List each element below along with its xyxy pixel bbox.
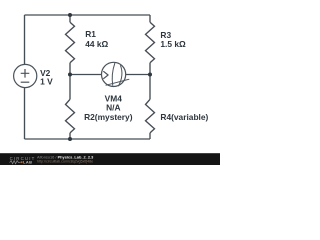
- wire bottom horizontal: [25, 138, 151, 140]
- svg-text:LAB: LAB: [23, 160, 32, 165]
- wire junction to R4: [149, 75, 151, 100]
- wire left rail lower: [24, 88, 26, 139]
- wire R1 to junction: [69, 63, 71, 75]
- resistor R4: [146, 99, 155, 133]
- resistor R1: [66, 22, 75, 63]
- footer bar: [0, 153, 220, 165]
- node junction R3/R4/voltmeter: [148, 73, 152, 77]
- resistor R3: [146, 22, 155, 63]
- svg-text:1 V: 1 V: [40, 77, 53, 87]
- node junction R1/R2/voltmeter: [68, 73, 72, 77]
- wire R4 bottom stub: [149, 133, 151, 139]
- svg-text:R4(variable): R4(variable): [160, 112, 208, 122]
- wire top horizontal: [25, 14, 151, 16]
- svg-text:http://circuitlab.com/c8q2vg5x: http://circuitlab.com/c8q2vg5xtfj48e: [37, 159, 93, 163]
- svg-text:1.5 kΩ: 1.5 kΩ: [160, 39, 186, 49]
- wire voltmeter left lead: [70, 74, 102, 76]
- node junction bottom of R2: [68, 137, 72, 141]
- svg-text:R1: R1: [85, 29, 96, 39]
- voltage source V2: [14, 64, 37, 87]
- voltmeter VM4: [102, 62, 130, 86]
- node junction top of R1: [68, 13, 72, 17]
- wire left rail upper: [24, 15, 26, 64]
- logo waveform: [10, 161, 21, 164]
- wire voltmeter right lead: [126, 74, 150, 76]
- wire junction to R2: [69, 75, 71, 100]
- wire R3 to junction: [149, 63, 151, 75]
- wire right rail top stub: [149, 15, 151, 22]
- svg-text:N/A: N/A: [106, 103, 120, 113]
- wire R1 top stub: [69, 15, 71, 22]
- svg-text:R2(mystery): R2(mystery): [84, 112, 133, 122]
- svg-text:44 kΩ: 44 kΩ: [85, 39, 108, 49]
- resistor R2: [66, 99, 75, 133]
- logo orange square: [21, 161, 23, 163]
- wire R2 bottom stub: [69, 133, 71, 139]
